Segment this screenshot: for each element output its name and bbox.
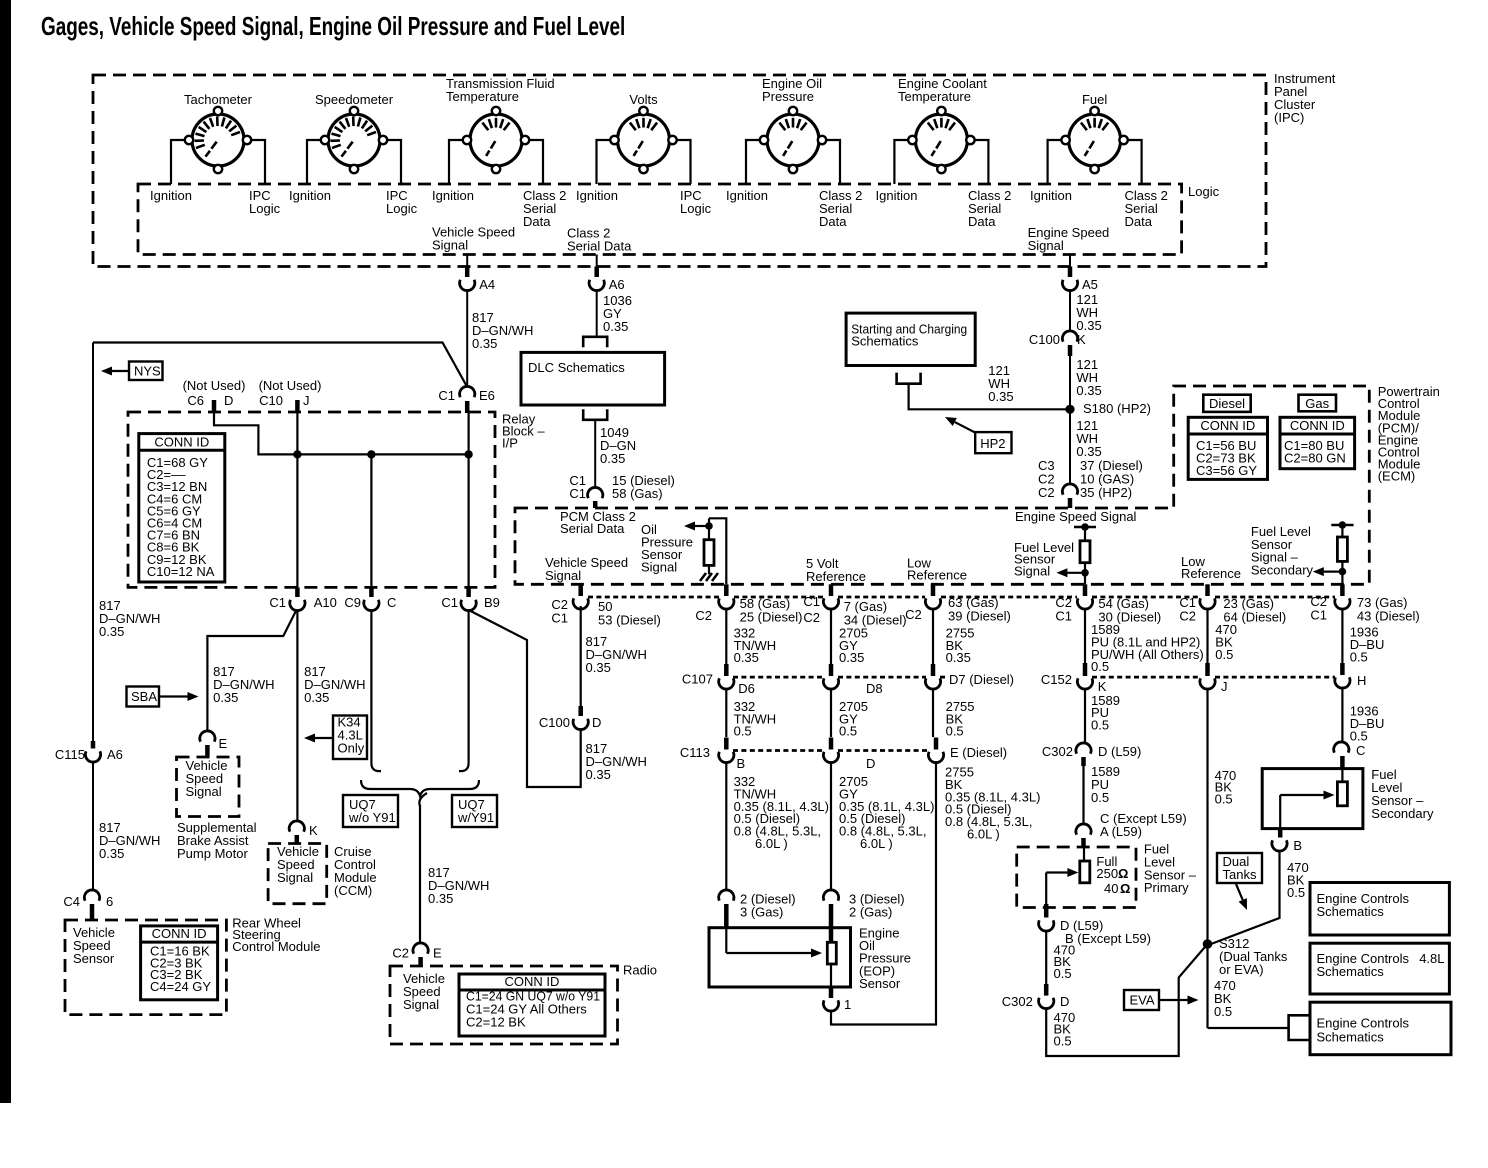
connector A6 — [594, 267, 599, 278]
K34 arrow — [315, 737, 333, 739]
fuel level primary internal resistor — [1074, 526, 1096, 529]
svg-text:0.35: 0.35 — [99, 624, 124, 639]
Starting and Charging Schematics box — [846, 313, 975, 365]
svg-text:Logic: Logic — [249, 201, 281, 216]
svg-text:D (L59): D (L59) — [1098, 744, 1141, 759]
VSS CONN ID table — [141, 926, 218, 1000]
svg-text:C4=24 GY: C4=24 GY — [150, 979, 211, 994]
svg-text:0.35: 0.35 — [600, 451, 625, 466]
svg-text:25 (Diesel): 25 (Diesel) — [740, 610, 803, 625]
svg-text:C1: C1 — [1055, 609, 1072, 624]
splice S312 — [1203, 939, 1213, 949]
gauge 2 — [328, 114, 380, 166]
connector C107 D7 (Diesel) — [931, 664, 936, 676]
svg-text:C1: C1 — [441, 595, 458, 610]
svg-text:0.5: 0.5 — [1091, 717, 1109, 732]
EVA arrow — [1159, 999, 1188, 1001]
svg-text:J: J — [303, 393, 310, 408]
secondary wiper arrow — [1280, 794, 1323, 796]
gauge 4 — [618, 114, 670, 166]
svg-text:0.5: 0.5 — [1350, 729, 1368, 744]
svg-text:0.5: 0.5 — [1054, 1033, 1072, 1048]
svg-text:39 (Diesel): 39 (Diesel) — [948, 609, 1011, 624]
svg-text:0.35: 0.35 — [586, 767, 611, 782]
svg-text:Signal: Signal — [432, 238, 468, 253]
svg-text:C100: C100 — [539, 715, 570, 730]
svg-text:C: C — [387, 595, 396, 610]
PCM pin stub x=1207.5 — [1205, 584, 1210, 596]
bracket into DLC — [583, 337, 607, 347]
HP2 arrow — [955, 422, 976, 433]
wire 332 TN/WH 0.5 — [725, 688, 727, 737]
svg-text:C2: C2 — [803, 610, 820, 625]
svg-text:0.5: 0.5 — [839, 724, 857, 739]
svg-text:3 (Gas): 3 (Gas) — [740, 905, 783, 920]
wire 817 to radio — [419, 805, 421, 944]
svg-text:K: K — [309, 823, 318, 838]
svg-text:C1: C1 — [1310, 608, 1327, 623]
svg-text:Fuel: Fuel — [1082, 92, 1107, 107]
wire 470 BK col5 — [1206, 609, 1208, 663]
wire 817 D-GN/WH to E6 — [466, 291, 468, 388]
svg-text:C2: C2 — [392, 946, 409, 961]
svg-text:0.5: 0.5 — [1214, 1004, 1232, 1019]
svg-text:C10: C10 — [259, 393, 283, 408]
title — [41, 12, 625, 40]
svg-text:C100: C100 — [1029, 332, 1060, 347]
connector D L59 B — [1044, 904, 1049, 918]
wire 332 to EOP — [725, 762, 727, 892]
svg-text:0.5: 0.5 — [1215, 647, 1233, 662]
svg-text:1: 1 — [844, 997, 851, 1012]
svg-text:Signal: Signal — [403, 997, 439, 1012]
svg-text:0.35: 0.35 — [1076, 444, 1101, 459]
Relay CONN ID table — [139, 434, 225, 582]
svg-text:Signal: Signal — [1028, 238, 1064, 253]
wire 1049 D-GN — [594, 420, 596, 487]
connector C1 A10 — [295, 587, 300, 597]
svg-text:Schematics: Schematics — [1317, 1030, 1385, 1045]
C152 row dotted — [1092, 676, 1200, 679]
connector C A L59 — [1076, 824, 1091, 835]
svg-text:B (Except L59): B (Except L59) — [1065, 931, 1151, 946]
svg-text:Reference: Reference — [806, 569, 866, 584]
svg-text:0.35: 0.35 — [946, 650, 971, 665]
svg-text:Temperature: Temperature — [898, 89, 971, 104]
svg-text:C302: C302 — [1042, 744, 1073, 759]
wire 817 to C4 — [92, 762, 94, 891]
EOP internal resistor — [827, 942, 836, 964]
svg-text:Signal: Signal — [641, 560, 677, 575]
gauge 5 — [767, 114, 819, 166]
svg-text:Signal: Signal — [186, 784, 222, 799]
svg-text:SBA: SBA — [131, 689, 157, 704]
svg-text:6.0L ): 6.0L ) — [967, 827, 1000, 842]
bracket below DLC — [583, 409, 607, 420]
svg-text:35 (HP2): 35 (HP2) — [1080, 485, 1132, 500]
svg-text:Engine Speed Signal: Engine Speed Signal — [1015, 509, 1137, 524]
svg-text:C3=56 GY: C3=56 GY — [1196, 463, 1257, 478]
single wire squiggle — [419, 793, 427, 806]
svg-text:0.35: 0.35 — [603, 319, 628, 334]
svg-text:C152: C152 — [1041, 672, 1072, 687]
Vehicle Speed Signal box (pump motor) — [177, 757, 240, 817]
svg-text:Signal: Signal — [277, 870, 313, 885]
connector C107 D6 — [724, 664, 729, 676]
gauge 7 wires — [1048, 140, 1066, 184]
svg-text:Tanks: Tanks — [1223, 867, 1257, 882]
svg-text:Pressure: Pressure — [762, 89, 814, 104]
svg-text:D: D — [866, 756, 875, 771]
svg-text:53 (Diesel): 53 (Diesel) — [598, 613, 661, 628]
svg-text:0.5: 0.5 — [1215, 791, 1233, 806]
svg-text:EVA: EVA — [1130, 993, 1155, 1008]
wire B9 to C100 D — [469, 610, 581, 787]
svg-text:0.5: 0.5 — [1091, 659, 1109, 674]
svg-text:w/o Y91: w/o Y91 — [348, 810, 396, 825]
Fuel Level Sensor Secondary box — [1262, 769, 1363, 829]
primary wiper arrow — [1046, 871, 1067, 873]
gauge 3 wires — [449, 140, 467, 184]
svg-text:Ignition: Ignition — [726, 188, 768, 203]
connector C9 C — [369, 587, 374, 597]
svg-text:B: B — [1293, 838, 1302, 853]
wire C9 down to hook — [370, 610, 372, 763]
svg-text:Ignition: Ignition — [576, 188, 618, 203]
wire 470 BK — [1045, 931, 1047, 985]
wire 2755 to EOP pin1 — [831, 762, 936, 1025]
svg-text:Ignition: Ignition — [876, 188, 918, 203]
svg-text:250: 250 — [1096, 866, 1118, 881]
relay internal wire C10 to A10 — [296, 412, 298, 587]
svg-text:CONN ID: CONN ID — [1290, 418, 1345, 433]
svg-text:A (L59): A (L59) — [1100, 824, 1142, 839]
svg-text:CONN ID: CONN ID — [152, 926, 207, 941]
svg-text:C2: C2 — [905, 607, 922, 622]
svg-text:Secondary: Secondary — [1251, 562, 1314, 577]
PCM interface dotted line — [588, 596, 719, 599]
EVA label box — [1124, 990, 1159, 1010]
fuel level secondary internal resistor — [1331, 524, 1353, 527]
relay internal wire to B9 — [468, 412, 470, 587]
UQ7 w/o Y91 box — [343, 795, 398, 827]
gauge 2 wires — [307, 140, 325, 184]
wire 1936 D-BU col7 — [1341, 609, 1343, 663]
Engine Controls Schematics box 3 — [1310, 1002, 1451, 1054]
svg-text:w/Y91: w/Y91 — [457, 810, 494, 825]
wire to engine controls bracket — [1208, 1027, 1289, 1029]
wire A10 to E — [207, 610, 296, 732]
wire 1589 PU lower — [1082, 766, 1084, 824]
C107 row dotted — [733, 676, 824, 679]
Engine Controls Schematics box 2 — [1310, 943, 1449, 994]
wire 470 BK bottom — [1046, 944, 1207, 1056]
svg-text:(Not Used): (Not Used) — [259, 378, 322, 393]
UQ7 w/Y91 box — [452, 795, 497, 827]
svg-text:C4: C4 — [63, 894, 80, 909]
wire 2755 BK col3 — [932, 609, 934, 664]
Dual Tanks label box — [1217, 853, 1262, 883]
svg-text:D6: D6 — [738, 681, 755, 696]
svg-text:C115: C115 — [55, 747, 85, 762]
connector C113 D — [829, 738, 834, 750]
SBA arrow — [159, 695, 188, 697]
svg-text:C2=12 BK: C2=12 BK — [466, 1015, 526, 1030]
Radio CONN ID table — [459, 974, 605, 1036]
gauge 3 — [470, 114, 522, 166]
C113 row dotted — [733, 749, 824, 752]
wire 121 WH below S180 — [1069, 409, 1071, 485]
svg-text:Volts: Volts — [629, 92, 658, 107]
wire 1936 D-BU — [1341, 687, 1343, 743]
HP2 label box — [975, 432, 1011, 453]
svg-text:(CCM): (CCM) — [334, 883, 372, 898]
secondary resistor — [1341, 769, 1343, 782]
svg-text:D: D — [224, 393, 233, 408]
svg-text:43 (Diesel): 43 (Diesel) — [1357, 609, 1420, 624]
bracket below starting box — [897, 373, 921, 384]
Vehicle Speed Sensor box — [65, 920, 226, 1015]
Gas label box — [1299, 395, 1337, 412]
connector C100 D — [573, 719, 588, 730]
svg-text:E (Diesel): E (Diesel) — [950, 745, 1007, 760]
connector A4 — [465, 267, 470, 278]
connector C2 E radio — [413, 943, 428, 954]
relay internal wire from C6 — [214, 412, 469, 454]
connector C152 K — [1083, 663, 1088, 676]
svg-text:2 (Gas): 2 (Gas) — [849, 905, 892, 920]
ground symbol — [700, 573, 718, 581]
svg-text:Speedometer: Speedometer — [315, 92, 394, 107]
svg-text:Diesel: Diesel — [1209, 396, 1245, 411]
resistor oil pressure — [704, 540, 714, 566]
svg-text:Radio: Radio — [623, 963, 657, 978]
svg-text:C302: C302 — [1002, 994, 1033, 1009]
connector EOP pin 1 — [829, 987, 834, 998]
svg-text:Ω: Ω — [1120, 881, 1130, 896]
relay internal wire to C9 — [370, 454, 372, 587]
svg-text:0.5: 0.5 — [734, 724, 752, 739]
svg-text:C10=12 NA: C10=12 NA — [147, 564, 215, 579]
svg-text:Tachometer: Tachometer — [184, 92, 253, 107]
svg-text:B9: B9 — [484, 595, 500, 610]
svg-text:Sensor: Sensor — [859, 976, 901, 991]
wire 470 BK from B to S312 — [1211, 851, 1280, 945]
svg-text:C113: C113 — [680, 745, 710, 760]
gauge 6 wires — [894, 140, 912, 184]
svg-text:0.35: 0.35 — [839, 650, 864, 665]
wire A6 from IPC — [596, 255, 598, 267]
svg-text:S180 (HP2): S180 (HP2) — [1083, 401, 1151, 416]
svg-text:C1: C1 — [438, 388, 455, 403]
SBA label box — [127, 687, 160, 707]
svg-text:A6: A6 — [107, 747, 123, 762]
Engine Controls Schematics box 1 — [1310, 883, 1449, 936]
svg-text:0.35: 0.35 — [99, 846, 124, 861]
EOP sensor box — [709, 928, 851, 987]
svg-text:Logic: Logic — [680, 201, 712, 216]
connector EOP pin 3-2 — [823, 890, 838, 901]
svg-text:Serial Data: Serial Data — [560, 521, 625, 536]
svg-text:0.35: 0.35 — [586, 660, 611, 675]
svg-text:Logic: Logic — [386, 201, 418, 216]
PCM pin stub x=726.3 — [724, 584, 729, 596]
svg-text:0.5: 0.5 — [1054, 966, 1072, 981]
svg-text:(IPC): (IPC) — [1274, 110, 1304, 125]
svg-text:HP2: HP2 — [980, 436, 1005, 451]
merge brace — [361, 780, 479, 796]
svg-text:6.0L ): 6.0L ) — [755, 836, 788, 851]
svg-text:B: B — [737, 756, 746, 771]
Diesel label box — [1203, 395, 1250, 412]
svg-text:Signal: Signal — [1014, 563, 1050, 578]
wire 121 WH to S180 — [909, 384, 1070, 410]
wire 2755 BK 0.5 — [932, 688, 934, 737]
connector B — [1278, 829, 1283, 838]
oil pressure internal circuit — [709, 518, 726, 584]
NYS arrow — [112, 370, 129, 372]
svg-text:C1: C1 — [551, 611, 568, 626]
connector C152 H — [1340, 663, 1345, 675]
wire 2705 GY 0.5 — [830, 688, 832, 737]
svg-text:D7 (Diesel): D7 (Diesel) — [949, 672, 1014, 687]
EOP internal arrow — [725, 928, 727, 953]
connector C113 B — [724, 738, 729, 750]
svg-text:Logic: Logic — [1188, 184, 1220, 199]
connector E — [200, 731, 215, 742]
svg-text:6.0L ): 6.0L ) — [860, 836, 893, 851]
svg-text:0.35: 0.35 — [428, 891, 453, 906]
connector C secondary — [1334, 742, 1349, 753]
svg-text:C: C — [1356, 743, 1365, 758]
svg-text:0.5: 0.5 — [1287, 885, 1305, 900]
svg-text:Sensor: Sensor — [73, 951, 115, 966]
Relay Block box — [128, 412, 495, 587]
svg-text:Ignition: Ignition — [289, 188, 331, 203]
wire 121 WH — [1069, 291, 1071, 333]
svg-text:C2: C2 — [1038, 485, 1055, 500]
wire 121 WH to S180 — [1069, 356, 1071, 409]
NYS label box — [129, 362, 163, 381]
svg-text:J: J — [1221, 679, 1228, 694]
svg-text:I/P: I/P — [502, 436, 518, 451]
svg-text:K: K — [1098, 679, 1107, 694]
Gas CONN ID table — [1280, 417, 1355, 468]
svg-text:Schematics: Schematics — [1317, 904, 1385, 919]
connector C152 J — [1205, 663, 1210, 676]
wire A4 from IPC — [466, 255, 468, 267]
svg-text:H: H — [1357, 673, 1366, 688]
svg-text:Gages, Vehicle Speed Signal, E: Gages, Vehicle Speed Signal, Engine Oil … — [41, 12, 625, 40]
svg-text:C107: C107 — [682, 672, 713, 687]
svg-text:Gas: Gas — [1305, 396, 1329, 411]
svg-text:A4: A4 — [479, 277, 495, 292]
svg-text:D8: D8 — [866, 681, 883, 696]
wire 2705 GY col2 — [830, 609, 832, 664]
svg-text:Ignition: Ignition — [432, 188, 474, 203]
gauge 6 — [915, 114, 967, 166]
svg-text:4.8L: 4.8L — [1419, 951, 1444, 966]
connector C113 E (Diesel) — [934, 738, 939, 750]
svg-text:DLC Schematics: DLC Schematics — [528, 360, 625, 375]
gauge 1 — [192, 114, 244, 166]
svg-text:Schematics: Schematics — [1317, 964, 1385, 979]
svg-text:C2: C2 — [695, 608, 712, 623]
svg-text:Ignition: Ignition — [1030, 188, 1072, 203]
svg-text:D: D — [592, 715, 601, 730]
svg-text:40: 40 — [1104, 881, 1118, 896]
wire 470 BK J — [1206, 688, 1208, 1028]
svg-text:0.5: 0.5 — [1350, 649, 1368, 664]
svg-text:C1: C1 — [803, 594, 820, 609]
svg-text:A6: A6 — [609, 277, 625, 292]
left page edge bar — [0, 0, 11, 1103]
Diesel CONN ID table — [1188, 417, 1267, 479]
svg-text:6: 6 — [106, 894, 113, 909]
svg-text:0.35: 0.35 — [304, 690, 329, 705]
svg-text:Data: Data — [1125, 214, 1153, 229]
svg-text:Ignition: Ignition — [150, 188, 192, 203]
svg-text:58 (Gas): 58 (Gas) — [612, 486, 663, 501]
svg-text:0.35: 0.35 — [1076, 318, 1101, 333]
connector C4 6 — [84, 890, 99, 901]
svg-text:NYS: NYS — [134, 364, 161, 379]
svg-text:C6: C6 — [187, 393, 204, 408]
left wire 817 down — [92, 343, 94, 742]
svg-text:D: D — [1060, 994, 1069, 1009]
gauge 4 wires — [597, 140, 615, 184]
svg-text:Primary: Primary — [1144, 880, 1189, 895]
svg-text:Control Module: Control Module — [232, 939, 320, 954]
svg-text:C9: C9 — [344, 595, 361, 610]
K34 label box — [333, 716, 367, 760]
svg-text:0.35: 0.35 — [734, 650, 759, 665]
PCM pin stub x=1342.4 — [1340, 584, 1345, 596]
wire 332 TN/WH col1 — [725, 609, 727, 664]
connector C115 A6 — [91, 741, 96, 749]
svg-text:C2: C2 — [1179, 609, 1196, 624]
Cruise vehicle speed signal box — [268, 844, 327, 904]
Instrument Panel Cluster box — [93, 75, 1266, 267]
svg-text:Secondary: Secondary — [1371, 806, 1434, 821]
connector C100 K — [1062, 331, 1077, 342]
gauge 1 wires — [171, 140, 189, 184]
splice S180 — [1065, 405, 1074, 414]
connector C302 D L59 — [1076, 743, 1091, 754]
svg-text:Data: Data — [819, 214, 847, 229]
svg-text:Signal: Signal — [545, 568, 581, 583]
svg-text:(ECM): (ECM) — [1378, 469, 1416, 484]
svg-text:0.35: 0.35 — [988, 389, 1013, 404]
gauge 7 — [1069, 114, 1121, 166]
svg-text:CONN ID: CONN ID — [1200, 418, 1255, 433]
svg-text:A10: A10 — [314, 595, 337, 610]
primary resistor — [1083, 847, 1085, 861]
svg-text:C1: C1 — [269, 595, 286, 610]
svg-text:E6: E6 — [479, 388, 495, 403]
svg-text:C1: C1 — [569, 486, 586, 501]
svg-text:0.35: 0.35 — [472, 336, 497, 351]
PCM pin stub x=831 — [829, 584, 834, 596]
PCM pin stub x=580.7 — [578, 584, 583, 596]
svg-text:Serial Data: Serial Data — [567, 239, 632, 254]
svg-text:0.5: 0.5 — [946, 724, 964, 739]
svg-text:C2=80 GN: C2=80 GN — [1284, 451, 1346, 466]
wire from NYS corner diagonal — [93, 343, 467, 388]
svg-text:(Not Used): (Not Used) — [183, 378, 246, 393]
IPC inner logic box — [138, 184, 1182, 255]
svg-text:Reference: Reference — [907, 568, 967, 583]
